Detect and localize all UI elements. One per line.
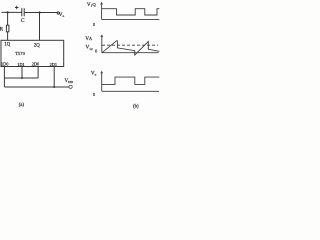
IC U1 T570 box bbox=[1, 40, 64, 66]
wire pin 2D1 bbox=[53, 67, 55, 88]
junction dot 1D1 bbox=[21, 77, 23, 79]
wire bus A (1D0-1D1-2D0) bbox=[4, 77, 38, 79]
waveform Vo axis bbox=[101, 71, 159, 91]
waveform V1Q square wave bbox=[102, 9, 160, 15]
wire 2Q pin bbox=[39, 13, 41, 41]
node 2Q junction dot bbox=[38, 11, 40, 13]
wire capacitor to Vo terminal bbox=[24, 12, 57, 14]
svg-text:V1Q: V1Q bbox=[87, 2, 97, 8]
wire bus B to VDD bbox=[4, 86, 69, 88]
waveform V1Q axis bbox=[101, 3, 160, 20]
wire pin 1D1 bbox=[21, 67, 23, 79]
svg-text:VDD: VDD bbox=[65, 79, 74, 84]
wire top-left segment bbox=[2, 11, 22, 13]
resistor R body bbox=[6, 25, 8, 32]
waveform VA axis bbox=[101, 35, 159, 53]
label plus sign of capacitor bbox=[15, 6, 18, 9]
svg-text:1Q: 1Q bbox=[4, 42, 10, 47]
threshold dashed line V12 bbox=[102, 44, 158, 46]
svg-text:2D0: 2D0 bbox=[32, 62, 39, 67]
junction dot 2D1 bbox=[53, 86, 55, 88]
svg-text:(a): (a) bbox=[19, 103, 25, 108]
terminal Vo circle bbox=[57, 12, 59, 14]
wire R branch lower to 1Q pin bbox=[7, 32, 9, 41]
waveform VA sawtooth bbox=[102, 41, 159, 55]
svg-text:1D0: 1D0 bbox=[1, 62, 8, 67]
capacitor C plates bbox=[22, 8, 24, 16]
wire R branch upper bbox=[7, 12, 9, 25]
background bbox=[0, 0, 160, 110]
svg-text:T570: T570 bbox=[15, 51, 25, 56]
terminal VDD circle bbox=[69, 85, 72, 88]
wire pin 1D0 bbox=[3, 67, 5, 88]
svg-text:(b): (b) bbox=[133, 104, 139, 109]
svg-text:R: R bbox=[0, 26, 4, 32]
svg-text:2D1: 2D1 bbox=[50, 62, 57, 67]
svg-text:C: C bbox=[21, 18, 25, 24]
svg-text:2Q: 2Q bbox=[34, 44, 40, 49]
node A junction dot bbox=[7, 11, 9, 13]
waveform Vo square wave bbox=[102, 77, 160, 84]
wire pin 2D0 bbox=[37, 67, 39, 79]
svg-text:1D1: 1D1 bbox=[17, 62, 24, 67]
